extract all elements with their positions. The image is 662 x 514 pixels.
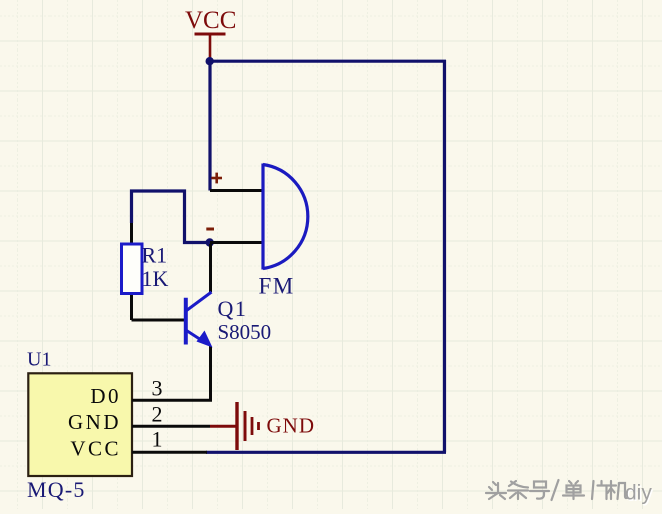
buzzer FM — [263, 164, 308, 270]
pin 3 D0 — [90, 376, 212, 409]
svg-text:D0: D0 — [90, 384, 121, 408]
wire right loop vertical — [443, 60, 446, 452]
resistor R1 — [122, 223, 143, 320]
svg-text:diy: diy — [625, 482, 652, 505]
svg-text:2: 2 — [152, 401, 163, 426]
svg-text:VCC: VCC — [185, 7, 236, 34]
wire VCC rail — [209, 60, 446, 63]
pin emitter wire — [209, 346, 212, 400]
wire base of Q1 — [132, 319, 185, 322]
svg-text:GND: GND — [68, 410, 121, 434]
pin 1 VCC — [70, 427, 207, 461]
ground GND symbol — [210, 402, 259, 450]
IC U1 MQ-5 body — [28, 373, 132, 476]
junction at VCC rail — [206, 57, 214, 65]
label - pin — [206, 228, 214, 231]
watermark — [486, 480, 662, 514]
svg-text:1: 1 — [152, 427, 163, 452]
svg-text:MQ-5: MQ-5 — [27, 477, 86, 502]
wire right loop bottom — [206, 451, 446, 454]
svg-text:S8050: S8050 — [218, 320, 272, 344]
svg-text:GND: GND — [267, 413, 316, 437]
power symbol VCC — [195, 34, 226, 60]
wire staple R1 top to minus node — [132, 191, 210, 243]
junction at minus node — [206, 238, 214, 246]
svg-text:3: 3 — [152, 376, 163, 401]
svg-text:R1: R1 — [142, 243, 168, 268]
svg-text:U1: U1 — [27, 349, 51, 371]
transistor Q1 — [186, 292, 213, 348]
svg-text:Q1: Q1 — [218, 296, 248, 321]
svg-text:FM: FM — [259, 274, 295, 299]
label + pin — [211, 173, 222, 184]
svg-text:VCC: VCC — [70, 437, 121, 461]
pin collector wire — [209, 244, 212, 292]
pin - of buzzer FM — [210, 241, 263, 244]
wire drop to buzzer plus — [208, 61, 211, 191]
pin + of buzzer FM — [210, 189, 263, 192]
pin 2 GND — [68, 401, 210, 434]
svg-text:1K: 1K — [142, 266, 169, 291]
